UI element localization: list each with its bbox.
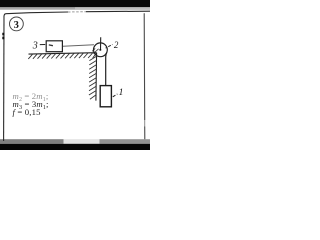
arrow mark inside block — [49, 44, 53, 47]
wall hatching — [89, 56, 97, 99]
svg-text:3: 3 — [14, 20, 19, 31]
svg-text:f = 0,15: f = 0,15 — [13, 107, 41, 117]
hatch marks inside pulley corner — [92, 48, 98, 53]
cord from block to pulley — [63, 45, 94, 46]
top black scan band — [0, 0, 150, 7]
label 1 leader dash-dot — [113, 94, 118, 97]
figure frame: top border — [4, 12, 68, 16]
pulley mounting pin — [100, 37, 102, 50]
cord from pulley to hanging mass — [106, 53, 107, 86]
figure frame: top border faded segment — [68, 11, 86, 13]
svg-text:2: 2 — [114, 40, 119, 50]
figure frame: right border — [143, 13, 146, 139]
svg-text:3: 3 — [32, 40, 38, 51]
svg-text:1: 1 — [119, 88, 124, 98]
figure frame: top border right segment — [86, 10, 150, 13]
page background — [0, 0, 150, 150]
ink blobs on left border — [2, 33, 4, 39]
top gray scan band — [0, 7, 150, 9]
wall (table vertical edge) — [95, 53, 98, 101]
label 3 leader dash — [40, 44, 45, 46]
label 2 leader dash-dot — [106, 45, 113, 49]
table hatching — [28, 53, 96, 59]
bottom black scan band — [0, 144, 150, 150]
pulley axle dot — [100, 49, 102, 51]
figure frame: left border — [3, 16, 5, 142]
bottom gray scan band (segmented) — [0, 139, 64, 144]
block 3 on table — [46, 41, 62, 52]
table surface line — [29, 53, 97, 54]
circled figure number 3 — [10, 17, 24, 31]
hanging mass 1 — [100, 86, 111, 107]
pulley 2 — [94, 43, 108, 57]
